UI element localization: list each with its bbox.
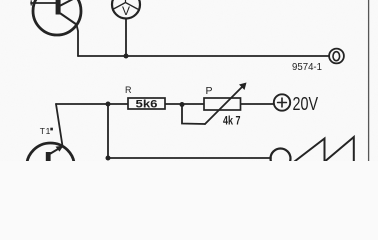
transistor Q base wire: [31, 2, 56, 4]
transistor T1 circle (clipped at bottom): [27, 143, 75, 191]
frame border right: [368, 0, 370, 161]
node: junction dot voltmeter/rail: [124, 54, 129, 59]
voltmeter needle stub: [125, 0, 127, 3]
voltmeter needle chevron: [114, 3, 138, 10]
node: junction dot bottom rail: [106, 156, 111, 161]
terminal +20V : circle: [274, 94, 290, 110]
potentiometer P box: [204, 98, 241, 110]
voltmeter M (circle clipped at top): [112, 0, 140, 19]
wire: vertical branch x=108: [107, 104, 109, 158]
svg-text:4k 7: 4k 7: [223, 113, 241, 127]
terminal 0 : digit: [333, 52, 340, 61]
svg-text:R: R: [125, 85, 132, 95]
transistor Q emitter diagonal: [61, 14, 77, 25]
svg-text:9574-1: 9574-1: [292, 61, 322, 73]
loudspeaker cone triangle 2: [323, 137, 354, 163]
terminal + sign: [278, 102, 287, 104]
terminal 0 : outer circle: [329, 49, 344, 64]
svg-text:20V: 20V: [293, 94, 319, 114]
node: junction dot rail / R-left branch: [106, 102, 111, 107]
wire: bottom-figure top rail: [56, 103, 274, 105]
wire: emitter down to rail: [77, 25, 79, 57]
potentiometer P wiper arrow diagonal: [205, 85, 244, 124]
potentiometer P arrowhead: [239, 83, 247, 91]
wire: top rail: [78, 55, 329, 57]
paper texture: [0, 0, 1, 1]
transistor T1 emitter arrowhead: [56, 146, 64, 152]
svg-text:T1: T1: [40, 126, 51, 136]
transistor Q collector diagonal: [61, 0, 75, 6]
loudspeaker cone triangle 1: [293, 139, 325, 164]
wire: wiper connection: [182, 105, 205, 125]
transistor T1 base bar: [46, 152, 51, 172]
transistor Q base wire end tick: [30, 1, 32, 5]
svg-text:P: P: [206, 85, 213, 97]
node: junction dot rail / wiper: [180, 102, 185, 107]
wire: voltmeter to rail: [125, 19, 127, 57]
resistor R box: [128, 98, 165, 109]
svg-text:5k6: 5k6: [136, 99, 158, 111]
wire: rail corner down to transistor T1: [56, 104, 63, 146]
transistor T1 emitter diagonal: [51, 146, 63, 153]
loudspeaker LS circle (clipped): [271, 149, 291, 169]
transistor Q base bar: [56, 0, 61, 15]
wire: bottom rail: [108, 157, 271, 159]
transistor Q (top, clipped) : circle: [33, 0, 81, 35]
svg-text:V: V: [122, 4, 130, 18]
